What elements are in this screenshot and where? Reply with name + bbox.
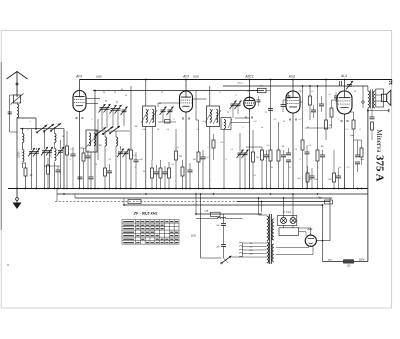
wire [175,129,177,151]
wire [322,157,324,189]
fuse 1,3A [211,212,221,216]
resistor R8 [168,168,171,178]
mains transformer core [268,214,270,264]
capacitor C34 [336,176,341,178]
wire [130,159,132,189]
tuning arrow can2 left [205,109,213,123]
trimmer C13 [121,107,128,116]
resistor R18 [301,140,304,150]
wire [196,119,199,121]
wire [198,120,200,152]
capacitor C50 [334,96,338,98]
wire transformer tap 4 [243,253,267,255]
wire to switch [201,257,222,259]
tube AM1 [286,91,300,113]
fuse box U 0,1A [278,216,297,226]
wire [239,155,241,189]
trimmer C41 [230,101,237,110]
trimmer C3 [41,147,48,156]
wire [195,90,197,93]
wire box to AZ1 [299,231,307,233]
wire bus D solid part [237,201,330,203]
wire [288,162,290,189]
resistor R10 [181,167,184,176]
wire transformer tap 2 [243,246,267,248]
resistor R30 [66,146,69,155]
wire [112,110,114,128]
capacitor C52 [134,160,139,162]
switch S2c [109,126,120,134]
capacitor C33 top of AL4 [340,81,342,86]
wire [83,148,85,153]
capacitor C17 [154,172,159,174]
resistor R20 [316,150,319,161]
wire [309,86,311,96]
wire [371,109,373,118]
resistor R22 [333,173,336,182]
wire [60,140,62,149]
wire [117,110,119,127]
wire antenna shunt [9,95,11,132]
padder capacitor block [165,120,171,124]
capacitor C27 [281,155,286,157]
wire [283,157,285,189]
svg-text:1M: 1M [320,146,323,148]
wire [47,174,49,189]
wire [164,174,166,189]
capacitor C48 [257,100,261,102]
wire [239,133,241,152]
wire [120,154,122,189]
wire [196,218,218,220]
coil L1 10000 [22,134,24,143]
ground [13,189,22,210]
wire [317,161,319,189]
tube AL4 [337,91,352,114]
wire can2 up [209,86,211,106]
wire bus E [124,204,323,206]
wire [60,152,62,188]
wire tube2 exit to can2 [193,98,207,100]
wire [90,152,92,170]
wire primary feed 2 [261,202,263,213]
oscillator coil box [86,130,97,152]
wire [305,232,307,236]
wire [25,163,27,168]
wire [72,156,74,189]
resistor R21 [325,120,328,129]
trimmer C10 [104,104,111,113]
wire field coil drop b [329,198,331,241]
svg-text:110: 110 [347,265,351,268]
wire [362,86,364,101]
wire [321,106,323,112]
trimmer C12 [115,105,122,114]
switch S2b [102,127,113,135]
wire [333,150,335,173]
tube ABC1 [244,97,256,109]
wire [258,102,260,106]
wire [157,103,159,107]
svg-text:220: 220 [249,254,252,256]
trimmer C4 [46,147,53,156]
svg-text:8µF: 8µF [361,159,365,161]
wire to output choke [196,213,262,215]
coil L7 [210,110,212,123]
wire to input circuit [17,117,36,119]
fuse F2 [290,218,296,224]
capacitor C26 [268,109,273,111]
wire ABC1 drop [249,109,251,189]
IF transformer can 2 [207,106,220,127]
wire link [56,189,58,202]
wire [135,162,137,189]
transformer secondary winding heater [272,219,274,240]
tube AF3 first [73,91,86,112]
svg-text:375 A: 375 A [374,155,386,182]
wire [338,168,340,176]
svg-text:AF3: AF3 [75,74,82,78]
resistor R27 [309,96,312,105]
svg-text:125: 125 [249,247,252,249]
wire transformer tap 3 [243,249,267,251]
diode coil box [221,118,231,130]
trimmer C19 [160,107,167,116]
alignment table [122,220,179,245]
wire bottom rail [323,261,368,263]
wire [306,145,308,152]
wire fusebox to box [283,226,285,228]
resistor R13 [252,152,255,162]
wire [354,139,362,141]
wire [10,131,17,133]
wire right border B+ [367,109,369,262]
wire [307,166,309,173]
wire [47,158,49,165]
capacitor C6 [86,156,91,158]
wire [195,91,197,121]
resistor R17 [277,150,280,161]
wire main ground bus [8,188,368,190]
capacitor C22 [201,157,206,159]
wire [87,158,89,189]
antenna symbol [7,71,28,97]
capacitor C49 [287,96,291,98]
resistor R25 [371,122,374,130]
svg-text:Minerva: Minerva [375,130,382,153]
coil L12 [89,133,91,146]
resistor R2 cathode [82,153,85,161]
wire AL4 grid exit [332,99,338,101]
mains lead 2 with caps [223,214,225,224]
svg-text:AL4: AL4 [340,74,347,78]
tuning arrow L9 [228,119,232,128]
wire [357,140,359,155]
capacitor C31 [310,176,315,178]
coil L5 [146,110,148,123]
wire rail to terminal [391,80,393,85]
wire [226,218,243,220]
wire tube1 anode to rail [79,80,81,91]
wire diode line 2 [231,122,250,124]
wire [261,160,263,189]
wire [36,148,38,150]
trimmer C42 [235,101,242,110]
wire AL4 drop [344,114,346,189]
svg-text:Am1: Am1 [288,74,296,78]
resistor R11 [197,152,200,162]
wire [151,160,153,168]
resistor R12 [212,140,215,148]
wire [283,150,285,155]
wire [54,127,56,134]
coil L6 [152,110,154,123]
wire [250,90,258,92]
trimmer C2 [33,148,40,157]
capacitor C35 [355,155,360,157]
svg-text:220V: 220V [359,259,365,262]
wire AVC [246,146,262,148]
output transformer [369,90,371,109]
AZ1 filament leads [308,246,310,248]
wire [213,134,215,140]
wire [168,178,170,189]
transformer primary winding [267,216,269,241]
wire AF rail [223,85,368,87]
svg-text:2M: 2M [299,91,302,93]
switch S2a [95,127,106,135]
wire [97,119,99,160]
svg-text:AF3: AF3 [182,74,189,78]
wire [309,105,311,120]
wire [278,161,280,189]
wire [54,162,56,189]
capacitor C25 [264,155,269,157]
terminal hooks top right [389,81,392,85]
wire [151,127,153,161]
svg-text:1M: 1M [98,145,101,147]
scan speck [7,264,9,266]
wire [288,148,290,153]
switch S1b [43,124,54,132]
wire [168,162,170,168]
wire [21,129,23,134]
wire link [123,198,125,205]
wire [160,160,162,168]
wire AM1 exit right [300,101,303,103]
wire [189,163,191,170]
wire [25,176,27,189]
wire [57,172,59,189]
wire [83,161,85,189]
resistor R14 25m [258,88,267,92]
capacitor C51 [71,154,76,156]
capacitor C29 grid [281,105,286,107]
trimmer C16 [123,149,130,158]
wire [223,130,225,189]
fuse F1 [281,218,287,224]
wire [353,129,355,189]
capacitor C14 [107,171,112,173]
wire [311,168,313,176]
wire dashed bus D [55,201,237,203]
wire [335,98,337,102]
wire [123,112,125,126]
wire [288,92,290,96]
wire [311,178,313,189]
wire osc feed [130,86,132,150]
wire diode line 1 [235,117,250,119]
HT winding box [279,228,299,236]
wire [35,118,37,129]
wire [282,106,284,112]
coil L3 [105,137,107,146]
capacitor C40 [8,112,12,114]
svg-text:10000: 10000 [19,151,21,158]
wire switch drop [63,129,65,189]
wire can1 secondary down [145,127,147,189]
wire can2 down [209,127,211,189]
trimmer C1 [28,148,35,157]
wire AM1 grid exit [283,99,286,101]
wire [357,164,359,172]
wire [135,152,137,160]
wire [349,111,354,113]
resistor R24 [360,148,363,157]
resistor R16 [269,150,272,161]
wire [261,147,263,150]
wire [101,109,103,129]
tuning arrow can1 left [141,109,149,123]
resistor R19 [306,173,309,182]
wire [21,163,23,168]
wire [169,112,171,122]
wire [338,178,340,189]
wire [160,178,162,189]
wire HT top rail 180V [80,79,392,81]
capacitor C32 [320,155,325,157]
wire [115,146,117,189]
wire grid line AL4 [305,127,332,129]
wire [182,176,184,189]
capacitor C37 2nF [221,224,226,226]
resistor R7 [159,168,162,178]
wire AL4 top [344,80,346,92]
wire [252,130,254,152]
wire [106,109,108,128]
wire screen feed drop [94,91,96,189]
capacitor C38 2nF [221,245,226,247]
wire [266,157,268,189]
wire link [195,194,197,214]
wire [80,147,84,149]
wire transformer tap 5 [243,256,267,258]
wire tube2 top [185,80,187,92]
wire [189,172,191,189]
table cell marks [123,222,178,243]
wire [87,150,89,156]
wire [302,86,304,140]
coil L4 [116,137,118,146]
wire fuse1 up [283,198,285,218]
wire [266,90,270,92]
wire [282,100,284,105]
wire [90,179,92,189]
wire [299,227,311,229]
wire link [74,194,76,198]
capacitor C18 [163,172,168,174]
wire [333,182,335,189]
wire can1 to rail [145,80,147,107]
transformer secondary winding 2 [272,244,274,262]
svg-text:Dyn: Dyn [318,198,323,200]
wire OT to speaker 2 [375,100,381,102]
wire filament 2 [276,254,313,256]
wire [252,162,254,189]
trimmer C45 [346,81,353,90]
fuse holder 110 [344,260,354,263]
wire [66,155,68,189]
coil secondary [373,91,375,108]
wire [156,174,158,189]
trimmer C11 [110,105,117,114]
wire [331,100,333,108]
wire [223,225,225,244]
wire tube1 grid exit right [86,98,100,100]
wire filament 1 [276,247,309,249]
wire transformer tap 1 [243,242,267,244]
bottom speaker wire [368,110,390,112]
resistor R15 [261,150,264,160]
tuning arrow can2 right [213,110,221,124]
wire [198,162,200,189]
coil primary [368,91,370,108]
speaker [376,89,391,107]
wire [22,162,25,164]
wire [325,80,327,121]
svg-text:110: 110 [249,243,252,245]
wire [31,153,33,188]
wire [313,105,315,110]
coil L8 [216,110,218,123]
wire [109,173,111,189]
svg-text:145: 145 [249,250,252,252]
wire [115,131,117,137]
wire [278,122,280,150]
capacitor C21 [188,170,193,172]
wire [266,150,268,155]
resistor R29 [47,165,50,174]
wire [258,96,260,100]
resistor R5 [130,150,133,159]
wire [270,80,272,151]
wire [371,130,373,140]
jack terminal left [362,101,364,103]
wire [125,154,127,189]
capacitor C44 [319,104,324,106]
trimmer C24 [242,150,249,159]
wire [302,150,304,189]
wire [31,129,33,150]
switch S1a [36,125,47,133]
wire tube1 cathode drop [79,112,81,189]
scanned page border [1,31,391,309]
wire fusebox to box 2 [292,226,294,228]
svg-text:ZF · 98,5 kHz: ZF · 98,5 kHz [133,211,158,216]
wire band switch bus 2 [95,130,130,132]
wire B+ drop [322,205,324,262]
wire [244,155,246,189]
